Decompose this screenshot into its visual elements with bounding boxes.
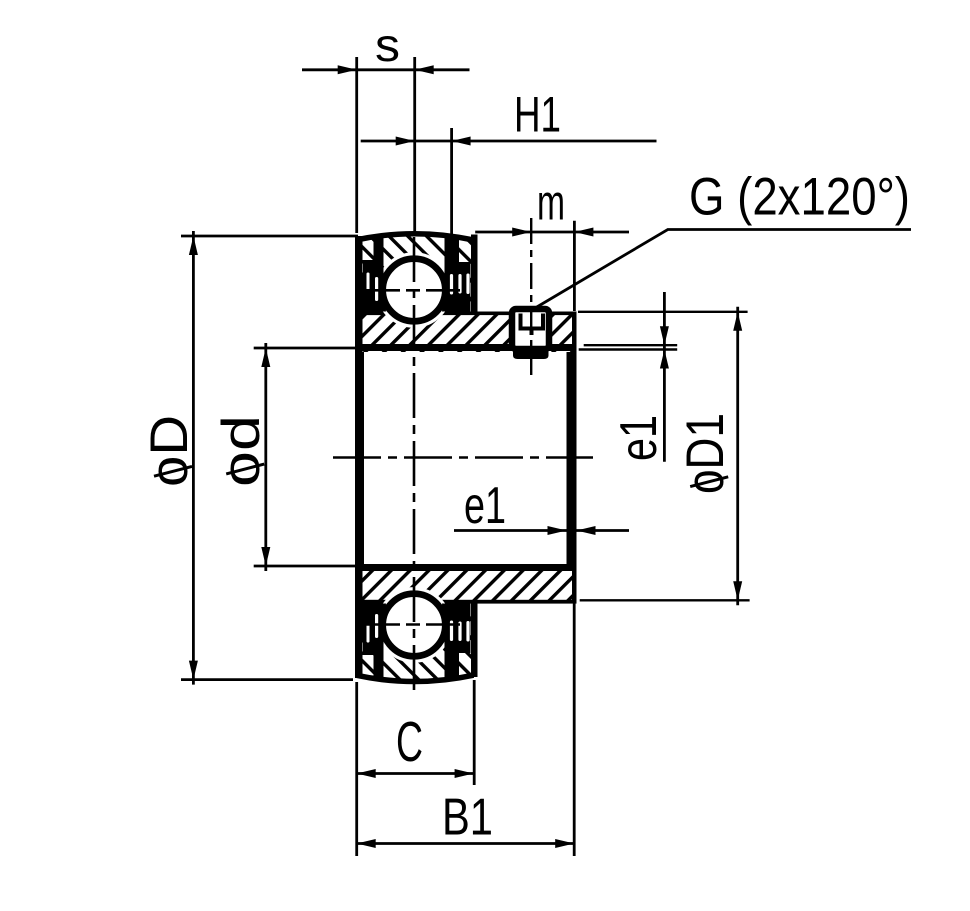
dimension B1 line and arrows	[357, 842, 575, 845]
ball bottom rim	[383, 594, 446, 657]
set screw G body	[512, 309, 549, 349]
inner ring bottom band bottom edge	[356, 600, 577, 604]
outer ring top block hatch	[356, 234, 474, 312]
horizontal centerline	[333, 456, 593, 459]
svg-text:e1: e1	[610, 415, 668, 461]
seal pocket top-right	[442, 235, 471, 312]
dimension e1 horizontal lines and arrows	[454, 529, 629, 532]
set screw axis centerline	[530, 218, 532, 375]
svg-text:od: od	[212, 415, 271, 487]
dimension C line and arrows	[357, 772, 474, 775]
dimension s extension lines	[355, 57, 358, 233]
dimension e1 vertical extension lines	[584, 344, 678, 346]
phi slash for phiD	[154, 466, 192, 476]
ball top rim	[383, 259, 446, 322]
dimension m extension line	[573, 221, 576, 311]
dimension phid line and arrows	[264, 343, 267, 571]
dimension phiD1 extension lines	[578, 311, 748, 313]
dimension phiD1 line and arrows	[736, 307, 739, 606]
dimension phiD extension lines	[181, 235, 358, 238]
outer ring top OD arc	[356, 234, 474, 240]
dimension phiD line and arrows	[192, 231, 195, 685]
top ball centerline	[366, 289, 462, 292]
svg-text:B1: B1	[442, 789, 493, 847]
leader G	[536, 230, 911, 308]
dimension C extension lines	[355, 682, 358, 856]
inner ring top band top edge	[356, 312, 577, 316]
bore bottom line	[356, 564, 575, 571]
ball top raceway gap	[376, 252, 452, 328]
inner ring bottom band hatch	[356, 566, 577, 601]
dimension phid extension lines	[254, 347, 357, 350]
outer ring right face top	[471, 235, 478, 312]
phi slash for phiD1	[690, 477, 728, 487]
svg-text:e1: e1	[464, 477, 506, 535]
left face column	[355, 236, 363, 678]
dimension H1 lines and arrows	[361, 140, 657, 143]
inner ring top band hatch	[356, 312, 577, 353]
seal pocket bottom-left	[359, 604, 387, 680]
dimension H1 extension line	[450, 128, 453, 234]
outer ring bottom block hatch	[356, 604, 474, 682]
outer ring right face bottom	[471, 601, 478, 677]
set screw tip	[513, 351, 549, 360]
sleeve right face	[572, 312, 577, 602]
svg-text:H1: H1	[514, 87, 561, 143]
seal pocket top-left	[359, 236, 387, 312]
dimension s lines and arrows	[302, 68, 470, 71]
bottom ball centerline	[366, 623, 462, 626]
svg-text:C: C	[396, 710, 423, 774]
dimension e1 vertical line and arrows	[663, 292, 666, 462]
bore top line	[356, 344, 575, 351]
sleeve bore groove wall	[567, 352, 577, 566]
svg-text:s: s	[375, 19, 400, 71]
svg-text:oD: oD	[140, 415, 199, 487]
set screw socket	[521, 314, 544, 329]
vertical centerline	[413, 237, 416, 692]
phi slash for phid	[226, 464, 264, 474]
dimension B1 extension line right	[573, 601, 576, 856]
svg-text:G (2x120°): G (2x120°)	[689, 168, 910, 227]
outer ring bottom OD arc	[356, 675, 474, 681]
seal pocket bottom-right	[442, 604, 471, 681]
ball bottom raceway gap	[376, 587, 452, 663]
dimension m lines and arrows	[475, 231, 629, 234]
svg-text:m: m	[537, 175, 565, 231]
